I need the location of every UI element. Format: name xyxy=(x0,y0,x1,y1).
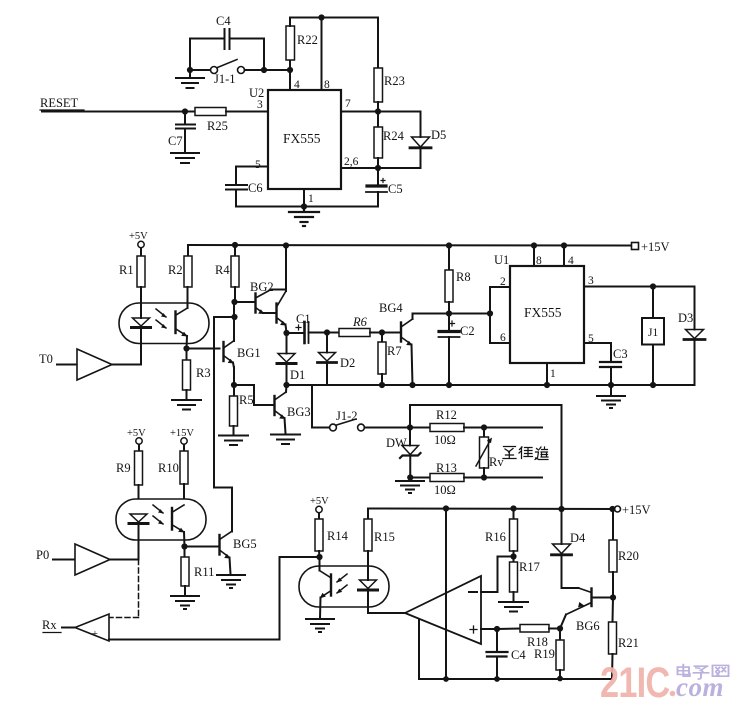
node R8/C2 junction xyxy=(446,310,452,316)
op-amp comparator xyxy=(405,576,481,644)
wire U1 pin4 stub xyxy=(561,242,567,266)
resistor R18 xyxy=(520,625,560,650)
svg-text:R9: R9 xyxy=(116,461,131,475)
svg-text:8: 8 xyxy=(536,255,542,267)
ground under R5 xyxy=(219,436,248,446)
ground under R11 xyxy=(171,596,199,609)
diode D1 xyxy=(277,333,305,385)
svg-text:T0: T0 xyxy=(39,352,53,366)
wire pin8 stub xyxy=(321,18,323,91)
svg-text:C4: C4 xyxy=(511,648,526,662)
wire R5 node to BG3 base xyxy=(234,385,275,405)
wire BG2 collectors to bus xyxy=(283,242,289,291)
wire inverting input xyxy=(481,557,514,593)
transistor BG5 xyxy=(220,532,257,575)
svg-text:2: 2 xyxy=(500,276,506,288)
svg-text:R20: R20 xyxy=(618,549,639,563)
op-amp U1 FX555 box xyxy=(494,253,584,363)
svg-text:R19: R19 xyxy=(534,647,555,661)
capacitor C1 polarized xyxy=(287,312,311,343)
wire node to pins 2,6 bracket xyxy=(449,287,510,343)
svg-text:R12: R12 xyxy=(436,408,457,422)
resistor R13 10ohm xyxy=(410,461,542,497)
wire bottom ground bus xyxy=(419,678,612,680)
svg-text:C6: C6 xyxy=(248,181,263,195)
svg-text:R2: R2 xyxy=(168,263,183,277)
phototransistor of optocoupler 2 xyxy=(172,505,185,547)
svg-text:R22: R22 xyxy=(297,33,318,47)
node R4 bottom / BG2 base xyxy=(231,299,237,305)
ground under optocoupler 3 xyxy=(306,619,334,632)
buffer P0 xyxy=(36,544,110,575)
resistor R8 xyxy=(445,242,471,313)
attenuator box outline xyxy=(410,405,562,509)
switch J1-2 xyxy=(330,409,365,431)
resistor R21 xyxy=(609,598,639,680)
node J1 bottom junction xyxy=(650,382,656,388)
phototransistor of optocoupler 1 xyxy=(176,287,188,349)
svg-text:+: + xyxy=(92,629,98,640)
wire pin5 to C6 xyxy=(236,167,268,185)
svg-text:10Ω: 10Ω xyxy=(434,483,456,497)
capacitor C4 (lower) xyxy=(487,629,527,679)
wire switch to R22 node xyxy=(245,69,291,71)
net RESET label xyxy=(40,96,84,110)
wire U1 pin3 xyxy=(584,286,695,288)
svg-text:D3: D3 xyxy=(678,311,693,325)
node DW bottom junction xyxy=(407,474,413,480)
node R14 bottom junction xyxy=(316,554,322,560)
svg-text:+5V: +5V xyxy=(310,496,329,507)
svg-text:21IC: 21IC xyxy=(600,659,670,706)
node pin8 rail junction xyxy=(318,14,324,20)
resistor R15 xyxy=(364,509,395,581)
optocoupler 2 body xyxy=(116,499,206,540)
resistor R24 xyxy=(374,112,405,169)
resistor R11 xyxy=(181,547,214,596)
node RESET/C7 junction xyxy=(182,108,188,114)
label to-channel xyxy=(503,447,548,460)
wire BG1 emitter to R5 node xyxy=(233,367,235,385)
resistor R6 xyxy=(339,315,382,337)
wire P0 buffer output to LED xyxy=(110,559,139,561)
node R24/C5 junction xyxy=(375,165,381,171)
power +5V terminal (R1) xyxy=(129,231,148,256)
resistor R4 xyxy=(215,242,239,302)
node bus junctions xyxy=(443,676,563,682)
wire pin1 stub xyxy=(303,189,305,207)
svg-text:BG6: BG6 xyxy=(576,619,600,633)
svg-text:R11: R11 xyxy=(194,565,214,579)
resistor R5 xyxy=(230,385,254,435)
LED of optocoupler 2 xyxy=(129,514,148,560)
svg-text:D5: D5 xyxy=(431,128,446,142)
svg-text:1: 1 xyxy=(308,193,314,205)
node C2 bottom junction xyxy=(446,382,452,388)
optocoupler 3 body xyxy=(299,566,389,607)
power +15V terminal lower xyxy=(609,503,650,517)
svg-text:J1-1: J1-1 xyxy=(214,72,236,86)
ground under R17 xyxy=(499,602,528,612)
wire pin2,6 xyxy=(341,167,421,169)
svg-text:R10: R10 xyxy=(158,461,179,475)
svg-text:R24: R24 xyxy=(383,129,405,143)
resistor R25 xyxy=(195,108,228,134)
phototransistor of optocoupler 3 xyxy=(320,557,332,618)
svg-text:3: 3 xyxy=(588,275,594,287)
resistor R3 xyxy=(183,349,211,400)
wire top supply bus xyxy=(188,244,632,247)
node BG2 emitter / C1 / D1 xyxy=(283,330,289,336)
node pin1 junction xyxy=(301,203,307,209)
svg-text:BG2: BG2 xyxy=(250,280,274,294)
wire +15V lower bus xyxy=(368,508,615,511)
svg-text:U2: U2 xyxy=(249,86,264,100)
svg-text:R14: R14 xyxy=(327,529,349,543)
wire pin7 to D5 branch xyxy=(341,111,421,113)
diode D4 xyxy=(552,506,587,588)
wire U1 pin1 stub xyxy=(544,363,550,388)
resistor R16 xyxy=(485,505,518,562)
pin numbers U2 xyxy=(255,79,359,205)
wire opto1 emitter to BG1 base xyxy=(187,348,220,350)
svg-text:+15V: +15V xyxy=(622,503,651,517)
node C4/switch junction xyxy=(187,67,193,73)
svg-text:+15V: +15V xyxy=(170,428,194,439)
svg-text:7: 7 xyxy=(345,98,351,110)
optocoupler 1 body xyxy=(119,303,209,344)
buffer T0 xyxy=(39,349,112,380)
light arrows optocoupler 3 xyxy=(337,574,348,594)
svg-text:R3: R3 xyxy=(196,366,211,380)
switch J1-1 xyxy=(190,60,245,87)
resistor R19 xyxy=(534,629,564,679)
wire bottom bus of U2 xyxy=(236,206,378,208)
ground under switch J1-1 xyxy=(176,70,204,88)
transistor BG2 pair xyxy=(250,280,287,333)
svg-text:J1-2: J1-2 xyxy=(336,409,358,423)
node opto1 emitter junction xyxy=(183,345,189,351)
transistor BG3 xyxy=(275,385,311,434)
transistor BG6 xyxy=(560,588,600,633)
wire opamp output to LED xyxy=(368,612,405,614)
svg-text:1: 1 xyxy=(550,368,556,380)
ground under BG3 xyxy=(271,435,300,445)
wire R6 node to BG4 base xyxy=(382,332,401,334)
dashed wire P0 to Rx xyxy=(110,560,139,618)
node C4 right branch xyxy=(261,39,267,74)
transistor BG1 xyxy=(224,341,261,368)
wire BG6 base xyxy=(592,597,614,599)
wire ground stub to opamp xyxy=(418,619,420,679)
svg-text:5: 5 xyxy=(255,159,261,171)
svg-text:C4: C4 xyxy=(216,14,231,28)
ground under BG5 xyxy=(217,575,245,588)
svg-text:FX555: FX555 xyxy=(524,305,562,320)
wire BG1 collector chain xyxy=(233,302,235,341)
svg-text:C7: C7 xyxy=(168,134,183,148)
svg-text:D2: D2 xyxy=(340,356,355,370)
svg-text:8: 8 xyxy=(324,79,330,91)
watermark chinese dianziwang xyxy=(678,665,729,680)
capacitor C6 xyxy=(226,181,263,207)
node R20/R21/BG6 base junction xyxy=(610,594,616,600)
capacitor C3 xyxy=(600,347,628,385)
resistor R9 xyxy=(116,451,143,514)
diode D5 xyxy=(410,112,446,169)
svg-text:R6: R6 xyxy=(352,315,368,329)
power +15V terminal top xyxy=(632,240,670,254)
resistor R23 xyxy=(374,18,405,112)
wire top rail xyxy=(290,17,378,19)
svg-text:C2: C2 xyxy=(460,324,475,338)
potentiometer Rv xyxy=(476,428,504,478)
power +15V terminal (R10) xyxy=(170,428,194,451)
svg-text:R1: R1 xyxy=(119,263,134,277)
wire middle ground bus xyxy=(287,384,695,386)
svg-text:D1: D1 xyxy=(290,368,305,382)
ground under U2 pin1 xyxy=(289,207,319,227)
svg-text:FX555: FX555 xyxy=(283,131,321,146)
wire U1 pin5 to C3 xyxy=(584,343,611,361)
node C3 bottom junction xyxy=(608,382,614,388)
zener diode DW xyxy=(386,428,421,478)
node R22 bottom junction xyxy=(287,67,293,73)
svg-text:R8: R8 xyxy=(456,270,471,284)
diode D2 xyxy=(318,333,356,386)
pin numbers U1 xyxy=(500,255,594,380)
light arrows optocoupler 1 xyxy=(156,309,167,329)
resistor R10 xyxy=(158,451,188,505)
svg-text:BG5: BG5 xyxy=(233,537,257,551)
svg-text:+5V: +5V xyxy=(127,428,146,439)
resistor R12 10ohm xyxy=(410,408,542,447)
node D1 bottom junction xyxy=(283,382,289,388)
wire T0 buffer output to LED xyxy=(112,364,141,366)
ground under DW xyxy=(396,478,424,494)
svg-text:Rx: Rx xyxy=(42,618,57,632)
wire RESET to R25 xyxy=(42,111,195,113)
power +5V terminal (R14) xyxy=(310,496,329,519)
svg-text:+5V: +5V xyxy=(129,231,148,242)
node Rv bottom junction xyxy=(481,474,487,480)
svg-text:2,6: 2,6 xyxy=(344,156,359,168)
wire C4 left branch down xyxy=(189,39,191,71)
node R5 top junction xyxy=(231,382,237,388)
node D2 top junction xyxy=(324,329,330,335)
watermark 21IC logo xyxy=(600,659,729,706)
svg-text:BG1: BG1 xyxy=(237,346,261,360)
resistor R7 xyxy=(378,333,402,386)
svg-text:+15V: +15V xyxy=(641,240,670,254)
svg-text:R16: R16 xyxy=(485,530,506,544)
capacitor C7 xyxy=(168,112,195,153)
LED of optocoupler 1 xyxy=(132,287,151,365)
LED of optocoupler 3 xyxy=(359,580,378,613)
resistor R22 xyxy=(286,18,318,71)
svg-text:Rv: Rv xyxy=(489,455,504,469)
resistor R1 xyxy=(119,256,145,287)
wire opto2 emitter to BG5 base xyxy=(185,546,220,548)
transistor BG4 xyxy=(379,301,413,385)
svg-text:6: 6 xyxy=(500,332,506,344)
node BG4 emitter bottom xyxy=(409,382,415,388)
diode D3 xyxy=(678,287,705,386)
svg-text:10Ω: 10Ω xyxy=(434,433,456,447)
op-amp U2 FX555 box xyxy=(249,86,341,189)
svg-text:BG4: BG4 xyxy=(379,301,403,315)
ground under C7 xyxy=(171,153,199,163)
svg-text:R21: R21 xyxy=(618,636,639,650)
svg-text:P0: P0 xyxy=(36,548,49,562)
resistor R14 xyxy=(315,519,349,557)
svg-text:RESET: RESET xyxy=(40,96,79,110)
wire C1 to R6 xyxy=(309,332,340,334)
node BG1 collector tap xyxy=(231,314,237,320)
svg-text:BG3: BG3 xyxy=(287,405,311,419)
resistor R2 xyxy=(168,245,192,287)
wire Rx input from R14 node xyxy=(109,557,320,640)
node R23/R24 junction xyxy=(375,108,381,114)
ground under C3 xyxy=(597,385,625,408)
svg-text:R5: R5 xyxy=(239,393,254,407)
svg-text:3: 3 xyxy=(257,99,263,111)
svg-text:com: com xyxy=(676,672,724,702)
wire BG4 collector to R8 node xyxy=(413,313,450,315)
wire tap to long vertical xyxy=(214,317,235,532)
node R6/R7/BG4 junction xyxy=(379,329,385,335)
wire R25 to U2 pin3 xyxy=(226,111,268,113)
wire R4 node to BG2 base xyxy=(235,301,256,303)
capacitor C2 polarized xyxy=(439,314,475,386)
wire supply tap vertical xyxy=(443,505,449,679)
node R12 left junction xyxy=(407,424,413,430)
light arrows optocoupler 2 xyxy=(153,505,164,525)
svg-text:D4: D4 xyxy=(570,531,586,545)
node Rv top junction xyxy=(481,424,487,430)
svg-text:C1: C1 xyxy=(296,312,311,326)
svg-text:R17: R17 xyxy=(519,560,540,574)
svg-text:C5: C5 xyxy=(388,182,403,196)
svg-text:R13: R13 xyxy=(436,461,457,475)
node R16/R17 junction xyxy=(510,553,516,559)
svg-text:U1: U1 xyxy=(494,253,509,267)
wire pin4 stub xyxy=(289,70,291,90)
resistor R20 xyxy=(609,509,639,598)
svg-text:R25: R25 xyxy=(207,119,228,133)
wire U1 pin8 stub xyxy=(531,242,537,266)
wire non-inverting input xyxy=(481,626,520,632)
capacitor C4 xyxy=(190,14,264,49)
node R7 bottom junction xyxy=(379,382,385,388)
capacitor C5 polarized xyxy=(366,168,403,207)
wire switch to attenuator box xyxy=(365,427,411,429)
node R18/R19/BG6 junction xyxy=(557,625,563,631)
svg-text:4: 4 xyxy=(294,79,300,91)
buffer Rx xyxy=(42,614,109,641)
svg-text:R4: R4 xyxy=(215,263,230,277)
wire D1 node to switch J1-2 xyxy=(287,385,330,428)
node opto2 emitter junction xyxy=(181,543,187,549)
svg-text:J1: J1 xyxy=(648,327,658,339)
svg-text:C3: C3 xyxy=(613,347,628,361)
resistor R17 xyxy=(510,560,540,601)
svg-text:R23: R23 xyxy=(384,74,405,88)
power +5V terminal (R9) xyxy=(127,428,146,451)
node J1 top junction xyxy=(650,283,656,289)
svg-text:R7: R7 xyxy=(387,344,402,358)
crystal J1 xyxy=(642,287,664,386)
svg-text:4: 4 xyxy=(568,255,574,267)
ground under R3 xyxy=(172,400,201,410)
svg-text:R15: R15 xyxy=(374,530,395,544)
